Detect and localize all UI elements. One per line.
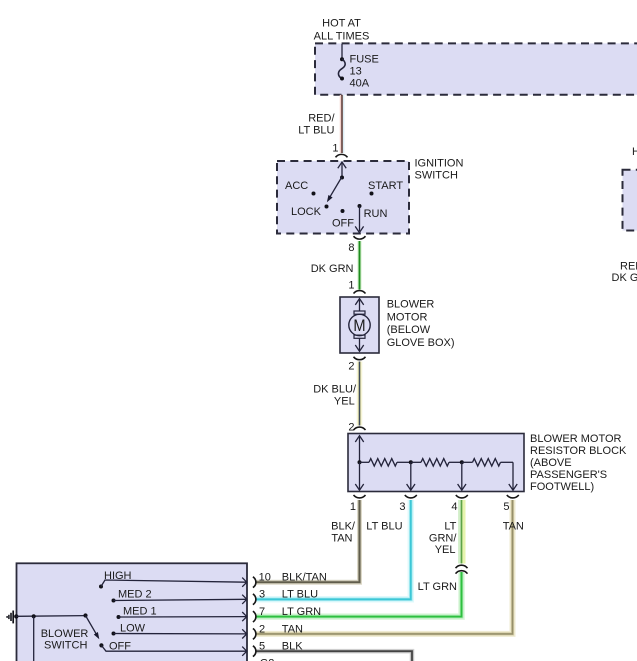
svg-text:OFF: OFF (109, 641, 131, 653)
svg-text:OFF: OFF (332, 218, 354, 230)
inline connector caps LT GRN (456, 565, 468, 568)
svg-text:LT BLU: LT BLU (282, 589, 318, 601)
node junction pin3 (409, 460, 413, 464)
svg-text:LT GRN: LT GRN (282, 606, 321, 618)
svg-text:PASSENGER'S: PASSENGER'S (530, 469, 607, 481)
svg-text:RED/: RED/ (308, 113, 335, 125)
svg-text:(BELOW: (BELOW (387, 324, 431, 336)
svg-text:2: 2 (348, 361, 354, 373)
svg-text:GRN/: GRN/ (429, 532, 457, 544)
svg-text:10: 10 (259, 572, 271, 584)
svg-text:40A: 40A (350, 78, 370, 90)
contact LOW row (112, 622, 247, 638)
svg-text:RESISTOR BLOCK: RESISTOR BLOCK (530, 445, 627, 457)
wire fuse box internal (341, 44, 343, 59)
fuse F13 40A (338, 53, 378, 89)
svg-text:(ABOVE: (ABOVE (530, 457, 572, 469)
svg-text:13: 13 (350, 66, 362, 78)
svg-text:DK GRN: DK GRN (612, 272, 637, 284)
wire BLK/TAN resistor pin1 to switch pin10 (257, 500, 360, 582)
wire fuse to ignition (RED/LT BLU) (298, 95, 343, 153)
ignition switch box (dashed) (277, 161, 409, 234)
fuse box 2 (dashed, clipped) (623, 170, 637, 231)
wire lower pole down (33, 616, 35, 661)
connector cup at motor exit (354, 357, 366, 360)
svg-text:7: 7 (259, 606, 265, 618)
svg-text:BLOWER: BLOWER (387, 299, 435, 311)
svg-text:1: 1 (332, 143, 338, 155)
svg-text:YEL: YEL (435, 544, 456, 556)
motor M1 symbol (349, 299, 370, 352)
connector cups at resistor exits (354, 495, 366, 498)
contact RUN with exit arrow (355, 204, 387, 233)
svg-text:G2: G2 (260, 658, 275, 661)
svg-text:DK GRN: DK GRN (311, 263, 354, 275)
svg-text:TAN: TAN (503, 520, 524, 532)
svg-text:ACC: ACC (285, 180, 308, 192)
svg-text:DK BLU/: DK BLU/ (313, 384, 357, 396)
contact HIGH row (99, 570, 247, 589)
svg-text:MOTOR: MOTOR (387, 311, 428, 323)
svg-text:RED/: RED/ (620, 260, 637, 272)
svg-text:TAN: TAN (282, 623, 303, 635)
svg-text:BLOWER: BLOWER (41, 628, 89, 640)
wire LT GRN/YEL resistor pin4 to inline connector (429, 500, 464, 564)
svg-text:1: 1 (350, 501, 356, 513)
svg-text:2: 2 (348, 422, 354, 434)
svg-text:ALL TIMES: ALL TIMES (314, 31, 370, 43)
node junction to lower pole (32, 614, 36, 618)
svg-text:MED 2: MED 2 (118, 588, 152, 600)
svg-text:YEL: YEL (334, 396, 355, 408)
resistor block exit arrows (355, 462, 517, 490)
svg-text:SWITCH: SWITCH (44, 639, 87, 651)
node HOT AT ALL TIMES label (314, 18, 370, 43)
svg-text:LT BLU: LT BLU (298, 125, 334, 137)
svg-text:LT BLU: LT BLU (366, 520, 402, 532)
svg-text:LT: LT (444, 520, 456, 532)
svg-text:RUN: RUN (364, 208, 388, 220)
svg-text:2: 2 (259, 623, 265, 635)
connector cap at motor entry (354, 291, 366, 294)
resistor R1 (360, 461, 370, 463)
switch wiper pivot (83, 613, 87, 617)
svg-text:LT GRN: LT GRN (418, 581, 457, 593)
blower motor box (340, 297, 379, 353)
svg-text:MED 1: MED 1 (123, 606, 157, 618)
svg-text:3: 3 (259, 589, 265, 601)
svg-text:4: 4 (451, 501, 457, 513)
svg-text:5: 5 (259, 641, 265, 653)
contact MED 2 row (112, 588, 247, 604)
wire DK GRN ignition to motor (311, 241, 360, 290)
ground chassis symbol (7, 611, 18, 624)
svg-text:BLK: BLK (282, 641, 303, 653)
contact OFF row (99, 641, 247, 656)
svg-text:GLOVE BOX): GLOVE BOX) (387, 337, 455, 349)
svg-text:8: 8 (348, 242, 354, 254)
svg-text:M: M (353, 316, 365, 335)
node junction pin4 (460, 460, 464, 464)
svg-text:FOOTWELL): FOOTWELL) (530, 481, 594, 493)
ignition internal entry arrow (338, 162, 346, 180)
resistor R2 (411, 461, 421, 463)
connector arcs at switch right edge (253, 577, 256, 657)
blower switch box (17, 563, 248, 661)
ignition wiper arm to LOCK (327, 177, 342, 202)
resistor R3 (462, 461, 473, 463)
svg-text:BLOWER MOTOR: BLOWER MOTOR (530, 433, 622, 445)
wire TAN resistor pin5 to switch pin2 (257, 500, 524, 634)
contact MED 1 row (117, 606, 247, 622)
svg-text:HIGH: HIGH (104, 570, 132, 582)
connector cap at ignition entry (336, 154, 348, 157)
svg-text:3: 3 (399, 501, 405, 513)
svg-text:1: 1 (348, 280, 354, 292)
blower motor resistor block box (348, 434, 524, 492)
wire DK BLU/YEL motor to resistor (313, 362, 359, 426)
fuse box (junction block, dashed) (315, 43, 637, 94)
svg-text:HOT AT: HOT AT (632, 146, 637, 158)
svg-text:IGNITION: IGNITION (415, 157, 464, 169)
connector cap at resistor entry (354, 427, 366, 430)
svg-text:BLK/: BLK/ (331, 521, 356, 533)
svg-text:TAN: TAN (331, 533, 352, 545)
wire LT GRN connector to switch pin7 (257, 572, 462, 617)
svg-text:HOT AT: HOT AT (322, 18, 361, 30)
svg-text:FUSE: FUSE (350, 53, 379, 65)
wire ground feed into switch (16, 615, 85, 618)
wire LT BLU resistor pin3 to switch pin3 (257, 500, 411, 599)
connector cup at ignition exit (354, 236, 366, 239)
svg-text:START: START (368, 180, 403, 192)
wire BLK switch pin5 to ground G2 (257, 651, 413, 661)
wiper arm to OFF (86, 616, 98, 636)
contact OFF (341, 209, 345, 213)
resistor entry arrow (355, 436, 363, 465)
svg-text:LOW: LOW (120, 622, 146, 634)
svg-text:LOCK: LOCK (291, 206, 322, 218)
svg-text:5: 5 (503, 501, 509, 513)
svg-text:BLK/TAN: BLK/TAN (282, 572, 327, 584)
svg-text:SWITCH: SWITCH (415, 169, 458, 181)
